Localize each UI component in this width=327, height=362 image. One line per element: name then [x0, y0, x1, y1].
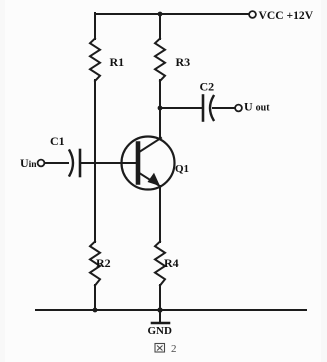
wire C1 to base	[81, 162, 136, 164]
wire C2 to Uout	[213, 107, 235, 109]
node ground junction left	[93, 308, 98, 313]
label Uin	[20, 156, 37, 170]
svg-text:C2: C2	[200, 80, 215, 94]
svg-text:Q1: Q1	[175, 163, 189, 175]
svg-text:2: 2	[171, 343, 177, 355]
wire R4 to ground rail	[159, 285, 161, 311]
label figure caption 图 2	[155, 343, 177, 355]
svg-text:GND: GND	[148, 325, 173, 337]
svg-text:C1: C1	[50, 134, 65, 148]
resistor R1	[90, 39, 100, 82]
label U out	[244, 100, 270, 114]
capacitor C1	[70, 150, 81, 176]
wire emitter branch	[159, 186, 161, 242]
svg-text:R4: R4	[164, 256, 179, 270]
node ground junction mid	[157, 307, 162, 312]
wire left branch lower	[94, 285, 96, 311]
resistor R2	[90, 242, 100, 286]
label R4	[164, 256, 179, 270]
node collector out junction	[158, 106, 163, 111]
wire top rail	[95, 13, 248, 15]
node top junction	[158, 12, 163, 17]
wire left branch middle	[94, 80, 96, 242]
terminal Uin	[38, 160, 45, 167]
label R1	[110, 55, 125, 69]
resistor R4	[155, 242, 165, 286]
label R2	[96, 256, 111, 270]
transistor Q1	[122, 137, 175, 190]
label GND	[148, 325, 173, 337]
resistor R3	[155, 39, 165, 82]
terminal U out	[235, 105, 242, 112]
wire ground rail	[36, 309, 306, 311]
svg-text:R2: R2	[96, 256, 111, 270]
svg-text:R3: R3	[176, 55, 191, 69]
label C2	[200, 80, 215, 94]
svg-text:U out: U out	[244, 100, 270, 114]
wire mid branch upper	[159, 13, 161, 39]
svg-text:VCC +12V: VCC +12V	[259, 9, 314, 22]
label Q1	[175, 163, 189, 175]
wire left branch upper	[94, 13, 96, 39]
label C1	[50, 134, 65, 148]
terminal VCC	[249, 11, 256, 18]
wire to C2	[160, 107, 201, 109]
wire collector branch	[159, 80, 161, 139]
label VCC +12V	[259, 9, 314, 22]
svg-text:R1: R1	[110, 55, 125, 69]
ground	[152, 310, 169, 323]
wire Uin to C1	[45, 162, 69, 164]
label R3	[176, 55, 191, 69]
capacitor C2	[203, 96, 214, 121]
